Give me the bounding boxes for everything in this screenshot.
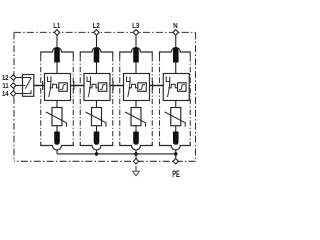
wire bus to PE terminal bbox=[175, 154, 177, 158]
svg-text:N: N bbox=[173, 23, 178, 30]
plug contact pin bottom (module 3) bbox=[133, 132, 139, 145]
remote signalling contact FM box bbox=[23, 75, 34, 97]
fuse indicator square (module 3) bbox=[138, 83, 147, 92]
terminal L1 bbox=[54, 30, 59, 36]
wire pin to disconnector box (module 3) bbox=[135, 62, 137, 74]
terminal N bbox=[173, 30, 178, 36]
terminal L3 bbox=[133, 30, 138, 36]
thermal disconnector switch (module 3) bbox=[127, 77, 131, 82]
wire pin to disconnector box (module 4) bbox=[175, 62, 177, 74]
svg-text:14: 14 bbox=[2, 91, 9, 98]
svg-text:11: 11 bbox=[2, 83, 8, 90]
disconnector box (module 3) bbox=[124, 74, 150, 101]
thermal disconnector switch (module 1) bbox=[48, 77, 52, 82]
plug contact pin top (module 2) bbox=[94, 48, 100, 63]
fuse indicator square (module 4) bbox=[178, 83, 187, 92]
wire L1 terminal to plug pin bbox=[56, 36, 58, 49]
wire cup to PE bus (module 1) bbox=[56, 150, 58, 154]
earth terminal bbox=[133, 159, 138, 164]
enclosure border bottom bbox=[14, 160, 196, 162]
svg-text:L3: L3 bbox=[132, 23, 139, 30]
wire terminal 12 bbox=[13, 77, 22, 79]
svg-text:12: 12 bbox=[2, 75, 9, 82]
fuse indicator square (module 1) bbox=[59, 83, 68, 92]
plug contact pin bottom (module 4) bbox=[173, 132, 179, 145]
PE terminal bbox=[173, 159, 178, 164]
enclosure border left bbox=[13, 32, 15, 161]
module 4 outline (plug-in arrester) bbox=[160, 48, 191, 57]
junction L3 bus bbox=[134, 152, 138, 156]
wire box to varistor (module 1) bbox=[56, 101, 58, 108]
module 2 outline (plug-in arrester) bbox=[80, 48, 113, 57]
junction N bus bbox=[174, 152, 178, 156]
plug contact pin top (module 3) bbox=[133, 48, 139, 63]
wire terminal 11 bbox=[13, 85, 22, 87]
ground symbol bbox=[132, 166, 140, 176]
plug contact pin bottom (module 1) bbox=[54, 132, 60, 145]
fuse indicator square (module 2) bbox=[98, 83, 107, 92]
varistor MOV (module 2) bbox=[92, 108, 102, 126]
trip linkage step (module 1) bbox=[50, 84, 59, 88]
terminal 11 bbox=[11, 83, 16, 88]
disconnector box (module 4) bbox=[163, 74, 189, 101]
disconnector box (module 2) bbox=[84, 74, 110, 101]
plug contact pin top (module 4) bbox=[173, 48, 179, 63]
svg-text:L2: L2 bbox=[93, 23, 100, 30]
wire box to varistor (module 3) bbox=[135, 101, 137, 108]
enclosure border top bbox=[14, 31, 196, 33]
wire pin to disconnector box (module 2) bbox=[96, 62, 98, 74]
wire L3 terminal to plug pin bbox=[135, 36, 137, 49]
wire terminal 14 bbox=[13, 93, 22, 95]
wire L2 terminal to plug pin bbox=[96, 36, 98, 49]
plug contact pin bottom (module 2) bbox=[94, 132, 100, 145]
wire N terminal to plug pin bbox=[175, 36, 177, 49]
linkage plug contacts (ticks) bbox=[43, 81, 153, 90]
trip linkage step (module 3) bbox=[129, 84, 138, 88]
svg-text:L1: L1 bbox=[53, 23, 60, 30]
terminal 14 bbox=[11, 91, 16, 96]
wire cup to PE bus (module 3) bbox=[135, 150, 137, 154]
module 1 outline (plug-in arrester) bbox=[41, 48, 74, 57]
wire cup to PE bus (module 4) bbox=[175, 150, 177, 154]
wire box to varistor (module 2) bbox=[96, 101, 98, 108]
FM changeover switch bbox=[23, 78, 32, 94]
varistor MOV (module 4) bbox=[171, 108, 181, 126]
wire varistor to bottom pin (module 4) bbox=[175, 126, 177, 132]
wire varistor to bottom pin (module 1) bbox=[56, 126, 58, 132]
wire bus to earth terminal bbox=[135, 154, 137, 158]
varistor MOV (module 3) bbox=[131, 108, 141, 126]
wire varistor to bottom pin (module 3) bbox=[135, 126, 137, 132]
module 3 outline (plug-in arrester) bbox=[120, 48, 153, 57]
trip linkage step (module 4) bbox=[168, 84, 177, 88]
disconnector box (module 1) bbox=[45, 74, 71, 101]
wire cup to PE bus (module 2) bbox=[96, 150, 98, 154]
trip linkage step (module 2) bbox=[89, 84, 98, 88]
junction L2 bus bbox=[95, 152, 99, 156]
plug contact pin top (module 1) bbox=[54, 48, 60, 63]
terminal 12 bbox=[11, 75, 16, 80]
terminal L2 bbox=[94, 30, 99, 36]
varistor MOV (module 1) bbox=[52, 108, 62, 126]
svg-text:PE: PE bbox=[172, 168, 180, 179]
wire pin to disconnector box (module 1) bbox=[56, 62, 58, 74]
thermal disconnector switch (module 2) bbox=[87, 77, 91, 82]
wire varistor to bottom pin (module 2) bbox=[96, 126, 98, 132]
wire box to varistor (module 4) bbox=[175, 101, 177, 108]
thermal disconnector switch (module 4) bbox=[166, 77, 170, 82]
mechanical linkage disconnector chain bbox=[34, 85, 163, 87]
enclosure border right bbox=[195, 32, 197, 161]
PE bus wire bbox=[57, 153, 176, 155]
